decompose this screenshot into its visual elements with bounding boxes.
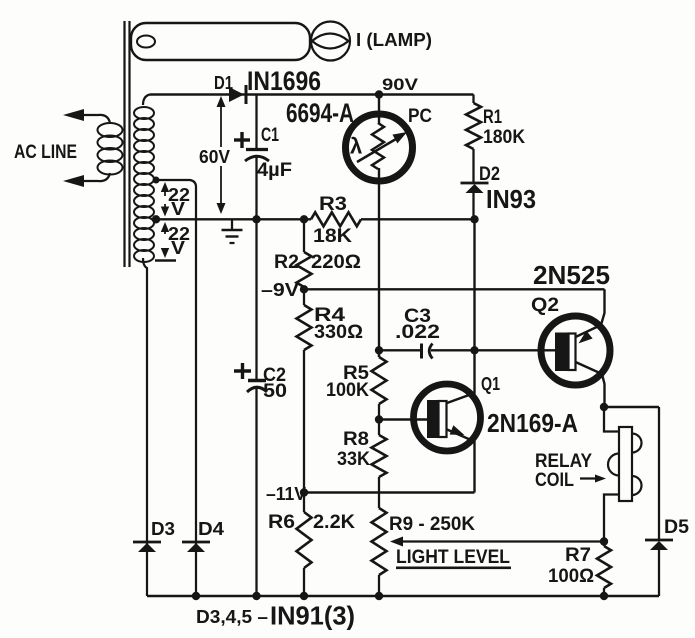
node rail R6 xyxy=(300,592,308,600)
diode D2 xyxy=(461,164,501,219)
node C3-R5 junction xyxy=(375,346,383,354)
node rail C2 xyxy=(252,592,260,600)
svg-text:6694-A: 6694-A xyxy=(286,98,354,128)
wire C2 column xyxy=(255,219,257,596)
wire mid rail right xyxy=(361,218,475,220)
node R2-rail junction xyxy=(300,215,308,223)
svg-text:90V: 90V xyxy=(382,75,419,94)
resistor R3 xyxy=(311,194,361,247)
resistor R1 xyxy=(466,95,525,184)
svg-text:R7: R7 xyxy=(565,545,591,566)
label 2N169-A xyxy=(487,408,578,438)
diode D5 xyxy=(645,517,689,596)
lamp bulb I xyxy=(311,22,350,61)
svg-text:C1: C1 xyxy=(261,125,279,146)
label IN1696 xyxy=(247,66,321,96)
resistor R4 xyxy=(297,289,364,492)
capacitor C3 xyxy=(395,306,440,359)
svg-text:2.2K: 2.2K xyxy=(313,512,355,533)
transistor Q1 2N169-A xyxy=(414,350,501,492)
node rail R9 xyxy=(375,592,383,600)
dimension arrows 22V lower xyxy=(155,222,190,261)
label LIGHT LEVEL xyxy=(396,547,511,569)
svg-text:IN1696: IN1696 xyxy=(247,66,321,96)
ground xyxy=(222,219,243,243)
svg-text:AC LINE: AC LINE xyxy=(14,142,77,163)
wire relay to D5 xyxy=(604,407,659,540)
diode D4 xyxy=(182,187,224,596)
resistor R5 xyxy=(326,350,387,419)
svg-text:D3,4,5 –: D3,4,5 – xyxy=(196,607,268,627)
svg-text:RELAY: RELAY xyxy=(535,451,592,472)
resistor R7 xyxy=(548,542,611,597)
svg-text:–9V: –9V xyxy=(261,280,299,300)
transformer core xyxy=(125,21,130,267)
svg-text:Q2: Q2 xyxy=(531,295,559,316)
AC line arrow top xyxy=(63,109,84,121)
svg-text:R2: R2 xyxy=(274,252,299,273)
node rail R7 xyxy=(600,592,608,600)
node 90V xyxy=(375,75,419,99)
wire -9V to Q2 collector xyxy=(304,288,605,290)
transformer secondary winding xyxy=(134,95,154,273)
node Q1 base junction xyxy=(375,415,383,423)
node transformer CT xyxy=(152,215,160,223)
label RELAY COIL xyxy=(535,451,606,491)
svg-text:50: 50 xyxy=(263,381,287,402)
svg-text:18K: 18K xyxy=(313,226,352,247)
svg-text:D1: D1 xyxy=(214,73,233,93)
node C1-rail junction xyxy=(252,215,260,223)
AC line arrow bottom xyxy=(63,175,84,187)
svg-text:R6: R6 xyxy=(268,512,295,533)
node R7 top xyxy=(600,537,608,545)
dimension arrows 22V upper xyxy=(161,182,190,219)
svg-text:λ: λ xyxy=(350,134,362,159)
photocell PC 6694-A xyxy=(346,95,413,358)
svg-text:D5: D5 xyxy=(664,517,689,538)
transformer primary winding xyxy=(84,115,123,181)
svg-text:–11V: –11V xyxy=(266,484,306,504)
svg-text:V: V xyxy=(171,199,185,219)
resistor R2 xyxy=(274,219,361,289)
resistor R8 xyxy=(337,420,387,509)
svg-text:IN93: IN93 xyxy=(486,184,536,214)
wire C3 to Q2 base xyxy=(431,349,555,351)
svg-text:COIL: COIL xyxy=(535,470,574,491)
potentiometer R9 xyxy=(372,508,476,596)
label IN93 xyxy=(486,184,536,214)
label AC LINE xyxy=(14,142,77,163)
svg-text:.022: .022 xyxy=(395,322,440,343)
wire PC to C3 xyxy=(379,349,422,351)
transistor Q2 2N525 xyxy=(531,289,610,407)
svg-text:2N525: 2N525 xyxy=(533,260,610,290)
label 6694-A xyxy=(286,98,354,128)
svg-text:V: V xyxy=(171,238,185,258)
svg-text:R8: R8 xyxy=(343,429,369,450)
wire bottom rail xyxy=(147,595,659,597)
wire base Q1 xyxy=(379,418,428,420)
node -9V xyxy=(261,280,308,300)
node -11V xyxy=(266,484,308,504)
svg-text:D2: D2 xyxy=(479,164,500,185)
svg-text:4µF: 4µF xyxy=(257,160,292,181)
svg-text:60V: 60V xyxy=(199,147,230,167)
node rail D4 xyxy=(192,592,200,600)
resistor R6 xyxy=(268,493,355,597)
node D2-rail junction xyxy=(470,215,478,223)
svg-text:LIGHT LEVEL: LIGHT LEVEL xyxy=(396,547,510,568)
svg-text:R1: R1 xyxy=(483,107,502,128)
svg-text:100K: 100K xyxy=(326,380,369,401)
svg-text:D3: D3 xyxy=(151,519,175,539)
node relay top xyxy=(600,403,608,411)
wire -11V xyxy=(304,491,475,493)
capacitor C1 xyxy=(234,95,292,220)
svg-text:R3: R3 xyxy=(319,194,347,215)
svg-text:2N169-A: 2N169-A xyxy=(487,408,578,438)
svg-text:180K: 180K xyxy=(483,127,525,148)
svg-text:Q1: Q1 xyxy=(481,374,500,394)
relay coil xyxy=(604,407,642,542)
svg-text:I (LAMP): I (LAMP) xyxy=(356,30,432,50)
R9 wiper arrow xyxy=(390,537,604,547)
label 2N525 xyxy=(533,260,610,290)
label D3,4,5 - IN91(3) xyxy=(196,601,355,631)
wire mid rail left xyxy=(156,218,311,220)
svg-text:330Ω: 330Ω xyxy=(314,322,363,343)
svg-text:PC: PC xyxy=(408,106,432,127)
svg-text:IN91(3): IN91(3) xyxy=(270,601,355,631)
diode D1 xyxy=(214,73,246,104)
svg-text:220Ω: 220Ω xyxy=(311,252,361,273)
svg-text:R9 - 250K: R9 - 250K xyxy=(389,514,475,535)
wire D2 to node xyxy=(473,219,475,350)
label I (LAMP) xyxy=(356,30,432,50)
capacitor C2 xyxy=(234,363,287,402)
lamp tube xyxy=(131,23,310,60)
node Q1 collector junction xyxy=(470,346,478,354)
svg-text:100Ω: 100Ω xyxy=(548,566,594,587)
label PC xyxy=(408,106,432,127)
diode D3 xyxy=(133,272,175,596)
secondary tap wire xyxy=(153,177,197,188)
wire top 90V rail xyxy=(150,93,474,95)
svg-text:33K: 33K xyxy=(337,449,370,470)
svg-text:D4: D4 xyxy=(198,519,224,539)
dimension arrow 60V xyxy=(199,96,230,214)
